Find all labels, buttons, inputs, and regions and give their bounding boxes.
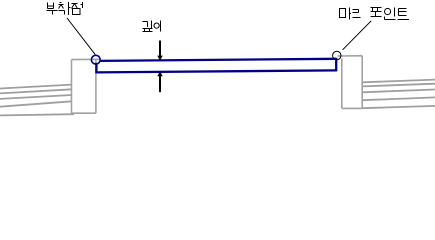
label I (이) of 깊이 xyxy=(154,21,161,32)
label CHAK (착) of 부착점 xyxy=(59,2,71,15)
label GIP (깊) of 깊이 xyxy=(143,21,153,32)
label MA (마) of 마크 포인트 xyxy=(340,8,352,20)
label IN (인) of 마크 포인트 xyxy=(385,8,396,20)
leader line to attachment point xyxy=(67,18,95,55)
attachment point circle (left, navy) xyxy=(91,55,100,64)
beam bottom line (navy) xyxy=(96,70,336,72)
right anchor post xyxy=(338,56,363,109)
left anchor cables xyxy=(0,85,74,116)
left anchor post xyxy=(72,59,101,113)
beam left end vertical xyxy=(95,63,97,74)
label KEU (크) of 마크 포인트 xyxy=(353,10,361,18)
label TEU (트) of 마크 포인트 xyxy=(398,9,410,20)
label BU (부) of 부착점 xyxy=(47,3,58,15)
label JEOM (점) of 부착점 xyxy=(72,2,83,15)
beam top line (navy) xyxy=(100,59,336,61)
right anchor cables xyxy=(362,80,435,109)
leader line to mark point xyxy=(343,21,372,50)
mark point circle (right, black) xyxy=(333,51,341,59)
depth dimension bottom arrow xyxy=(157,71,162,92)
depth dimension top arrow xyxy=(157,41,162,61)
label PO (포) of 마크 포인트 xyxy=(371,8,382,17)
beam right end vertical xyxy=(335,58,337,72)
